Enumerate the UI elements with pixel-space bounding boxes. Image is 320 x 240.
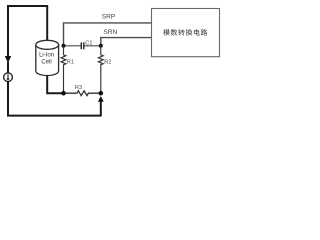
wire: left rail bottom + bottom rail (8, 82, 101, 116)
svg-text:SRN: SRN (103, 29, 117, 36)
capacitor C1 plates (81, 42, 84, 49)
ADC block U1 (152, 9, 220, 57)
current source I1 (4, 73, 13, 82)
svg-text:R1: R1 (67, 60, 74, 66)
wire: battery bottom to node A (46, 76, 63, 94)
resistor R2 (98, 46, 103, 93)
svg-text:SRP: SRP (102, 13, 116, 20)
svg-text:Li-Ion: Li-Ion (39, 52, 54, 58)
wire: left rail top segment (7, 6, 9, 57)
arrowhead into node B (98, 96, 104, 102)
current direction arrow on left rail (5, 56, 11, 63)
label: 模数转换电路 (ADC circuit) (163, 29, 207, 35)
node: junction dot left of C1 branch (62, 44, 66, 48)
capacitor C1 branch wire right (85, 45, 101, 47)
svg-text:R3: R3 (75, 85, 82, 91)
svg-text:C1: C1 (85, 40, 92, 46)
capacitor C1 branch wire left (64, 45, 81, 47)
node: junction dot right of C1 branch (99, 44, 103, 48)
node A: junction dot (battery/R1/R3) (61, 91, 66, 96)
wire: vertical into battery top (46, 5, 48, 40)
wire: bottom right vertical riser (100, 101, 102, 117)
wire: SRN corner down to C1 node (101, 38, 152, 46)
resistor R1 (61, 46, 66, 93)
node B: junction dot (R2/R3/return) (99, 91, 104, 96)
resistor R3 (sense resistor) (64, 91, 101, 96)
wire: left rail between arrow and current source (7, 62, 9, 73)
wire: top horizontal of battery loop (7, 5, 47, 7)
wire: SRP corner down to C1 node (64, 23, 152, 46)
svg-text:Cell: Cell (41, 60, 51, 66)
battery cell B1 (Li-Ion) (36, 40, 59, 75)
svg-text:R2: R2 (104, 60, 111, 66)
